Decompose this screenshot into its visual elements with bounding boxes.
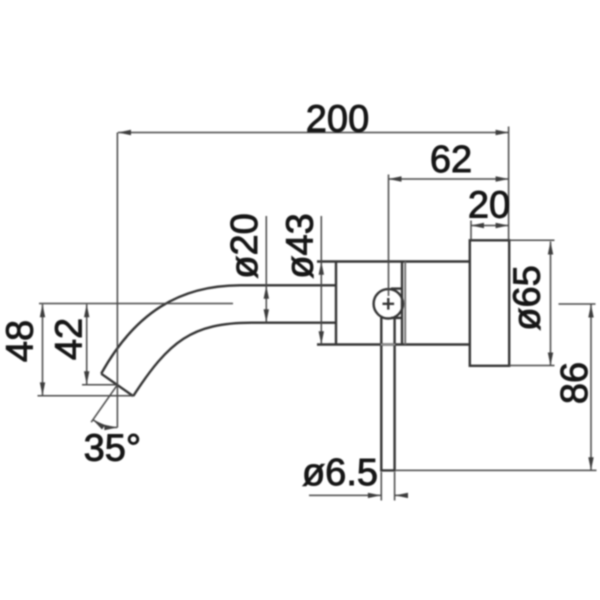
- svg-text:35°: 35°: [84, 428, 141, 470]
- dim 200 line: [118, 132, 509, 134]
- dim 62 line: [389, 178, 509, 180]
- dim dia6.5 right line: [395, 494, 408, 496]
- svg-text:200: 200: [306, 99, 369, 141]
- body ring joint line 2: [404, 262, 406, 345]
- ext line 86 bottom (rod end): [396, 469, 597, 471]
- handle socket top line: [391, 287, 401, 289]
- dim 86 line: [590, 305, 592, 471]
- handle socket bottom line: [391, 317, 401, 319]
- svg-text:ø20: ø20: [224, 213, 266, 278]
- svg-text:ø43: ø43: [280, 213, 322, 278]
- svg-text:ø65: ø65: [507, 265, 549, 330]
- spout inner edge: [133, 323, 336, 396]
- ext lines dia6.5: [381, 472, 394, 501]
- ext line dia65 top: [509, 239, 555, 241]
- dim 48 line: [42, 304, 44, 395]
- lever rod: [381, 317, 394, 470]
- svg-text:ø6.5: ø6.5: [302, 452, 378, 494]
- dim dia65 line: [550, 242, 552, 366]
- ref line spout axis: [39, 303, 233, 305]
- svg-text:86: 86: [554, 362, 596, 404]
- ball cross mark: [383, 298, 395, 310]
- body bottom edge faint trace through rod: [381, 344, 396, 346]
- svg-text:20: 20: [468, 185, 510, 227]
- 35deg arc: [93, 420, 117, 428]
- dim dia6.5 left line: [309, 494, 381, 496]
- svg-text:62: 62: [430, 139, 472, 181]
- 35deg flow ray: [91, 385, 117, 422]
- handle ball joint: [374, 289, 403, 318]
- dim 20 line: [471, 225, 509, 227]
- svg-text:42: 42: [49, 318, 91, 360]
- ext line 20 left: [470, 221, 472, 241]
- ext line 42 bottom (outlet centre): [82, 384, 117, 386]
- svg-text:48: 48: [0, 320, 42, 362]
- dim 42 line: [86, 304, 88, 384]
- ext line right of 200 (wall face): [508, 127, 510, 241]
- ext line dia65 bottom: [509, 365, 555, 367]
- spout outlet face: [101, 374, 133, 396]
- ext line left of 200 / outlet centre vertical: [116, 133, 118, 428]
- spout outer edge: [101, 285, 336, 373]
- ext line 86 top (body axis): [559, 303, 596, 305]
- ext line 48 bottom (outlet lower corner): [38, 395, 133, 397]
- wall flange: [470, 240, 509, 365]
- dim dia43 line: [320, 216, 322, 344]
- body cylinder outline: [317, 262, 470, 345]
- ext line 62 to ball centre: [388, 175, 390, 297]
- body ring joint line 1: [401, 262, 403, 345]
- dim dia20 line: [265, 216, 267, 322]
